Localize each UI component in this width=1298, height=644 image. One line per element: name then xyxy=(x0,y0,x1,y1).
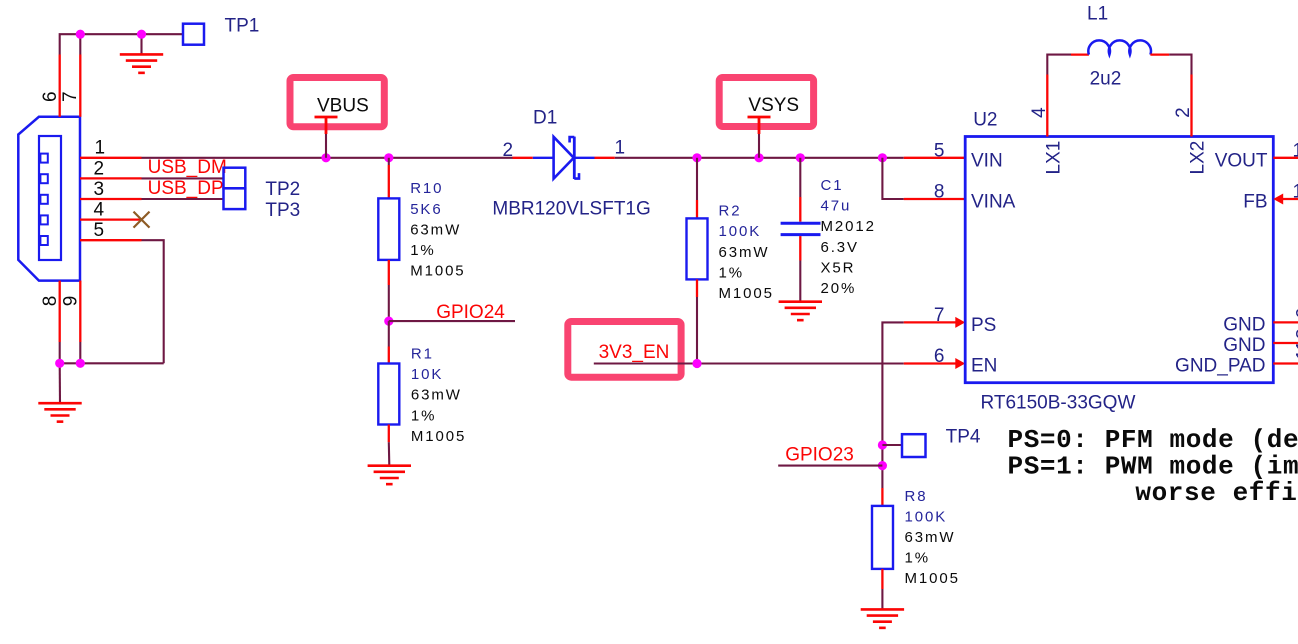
svg-text:2: 2 xyxy=(503,140,514,161)
svg-text:1: 1 xyxy=(95,138,106,159)
svg-text:5: 5 xyxy=(934,140,945,161)
junction R10 branch xyxy=(384,153,393,162)
resistor R8 xyxy=(881,488,883,506)
USB pin 9 stub xyxy=(79,281,81,342)
svg-text:M1005: M1005 xyxy=(410,263,465,280)
USB pin 8 stub xyxy=(59,281,61,342)
USB pin 3 stub xyxy=(80,198,142,200)
no-connect X on pin 4 xyxy=(134,212,150,228)
capacitor C1 xyxy=(799,158,801,197)
svg-text:47u: 47u xyxy=(821,198,852,215)
svg-text:3: 3 xyxy=(1294,328,1298,339)
svg-text:LX2: LX2 xyxy=(1188,141,1209,175)
svg-text:2: 2 xyxy=(1173,107,1194,118)
ground symbol top xyxy=(120,54,163,72)
diode D1 pin 1 stub xyxy=(595,157,615,159)
junction R2 to 3V3_EN xyxy=(692,359,701,368)
resistor R2 xyxy=(696,158,698,200)
svg-text:R1: R1 xyxy=(411,346,434,363)
test point TP1 square xyxy=(183,24,204,45)
svg-text:20%: 20% xyxy=(821,280,857,297)
op IC U2 body RT6150B xyxy=(965,137,1273,383)
svg-text:3: 3 xyxy=(94,179,105,200)
wire 3V3_EN to EN pin xyxy=(594,362,904,364)
svg-text:C1: C1 xyxy=(821,177,844,194)
svg-text:3V3_EN: 3V3_EN xyxy=(599,342,670,363)
GND pin stub b xyxy=(1273,342,1298,344)
test point TP4 square xyxy=(902,434,926,457)
svg-text:TP3: TP3 xyxy=(265,200,300,221)
ground symbol C1 xyxy=(779,302,822,320)
svg-text:5K6: 5K6 xyxy=(410,201,442,218)
svg-text:63mW: 63mW xyxy=(411,387,462,404)
main VBUS wire from USB pin1 to diode xyxy=(142,157,513,159)
power port VBUS box xyxy=(290,78,384,127)
svg-text:8: 8 xyxy=(40,296,61,307)
svg-text:MBR120VLSFT1G: MBR120VLSFT1G xyxy=(492,199,650,220)
VIN pin stub xyxy=(904,157,965,159)
junction pin9 ground xyxy=(76,359,85,368)
svg-text:U2: U2 xyxy=(973,110,997,131)
svg-text:M1005: M1005 xyxy=(719,285,774,302)
inductor L1 right stub xyxy=(1150,53,1169,55)
ground symbol R8 xyxy=(861,609,904,627)
wire top horizontal net from USB shield to TP1 xyxy=(60,34,183,54)
junction GPIO23 xyxy=(878,461,887,470)
junction R2 branch xyxy=(692,153,701,162)
wire split to VINA xyxy=(882,158,903,199)
GND pin stub a xyxy=(1273,321,1298,323)
wire pin2 to TP2 xyxy=(142,177,224,179)
svg-text:VINA: VINA xyxy=(971,192,1016,213)
VOUT pin stub xyxy=(1273,157,1298,159)
svg-text:VSYS: VSYS xyxy=(748,95,799,116)
svg-text:63mW: 63mW xyxy=(719,244,770,261)
svg-text:6.3V: 6.3V xyxy=(821,239,859,256)
svg-text:M1005: M1005 xyxy=(411,428,466,445)
svg-text:100K: 100K xyxy=(905,508,948,525)
svg-text:PS: PS xyxy=(971,315,996,336)
USB pin 2 stub xyxy=(80,177,142,179)
diode D1 schottky xyxy=(533,137,595,179)
wire GPIO24 xyxy=(389,320,515,322)
junction top wire at ground tap xyxy=(137,30,146,39)
svg-text:5: 5 xyxy=(94,220,105,241)
svg-text:FB: FB xyxy=(1243,192,1267,213)
inductor L1 left stub xyxy=(1071,53,1089,55)
svg-text:7: 7 xyxy=(60,91,81,102)
svg-text:R8: R8 xyxy=(905,488,928,505)
svg-text:USB_DM: USB_DM xyxy=(148,157,227,178)
svg-text:1%: 1% xyxy=(410,242,435,259)
VINA pin stub xyxy=(904,198,965,200)
test point TP2 square xyxy=(224,168,246,189)
svg-text:RT6150B-33GQW: RT6150B-33GQW xyxy=(981,393,1136,414)
svg-text:2u2: 2u2 xyxy=(1090,69,1122,90)
svg-text:9: 9 xyxy=(1294,307,1298,318)
USB pin 4 stub xyxy=(80,218,142,220)
svg-text:6: 6 xyxy=(934,346,945,367)
svg-text:EN: EN xyxy=(971,356,997,377)
svg-text:GPIO23: GPIO23 xyxy=(785,444,854,465)
svg-text:6: 6 xyxy=(40,91,61,102)
svg-text:1: 1 xyxy=(615,138,626,159)
net port 3V3_EN box xyxy=(568,322,681,378)
svg-text:M2012: M2012 xyxy=(821,218,876,235)
svg-text:63mW: 63mW xyxy=(410,221,461,238)
svg-text:1: 1 xyxy=(1293,140,1298,161)
GND_PAD pin stub xyxy=(1273,362,1298,364)
ground symbol R1 xyxy=(368,466,411,484)
wire VBUS port to main wire xyxy=(325,134,327,158)
wire LX1 to inductor xyxy=(1047,55,1071,75)
junction VBUS port xyxy=(321,153,330,162)
LX1 pin stub xyxy=(1046,75,1048,137)
svg-text:9: 9 xyxy=(61,296,82,307)
test point TP3 square xyxy=(224,188,246,209)
EN pin stub with arrow xyxy=(904,362,958,364)
USB pin 5 stub xyxy=(80,239,142,241)
svg-text:PS=1: PWM mode (improved rippl: PS=1: PWM mode (improved ripple but xyxy=(1008,452,1298,482)
wire to TP4 xyxy=(882,444,902,446)
VSYS power bar symbol xyxy=(748,117,771,134)
svg-text:R10: R10 xyxy=(410,180,443,197)
USB pin 7 stub xyxy=(79,55,81,117)
svg-text:63mW: 63mW xyxy=(905,529,956,546)
svg-text:2: 2 xyxy=(94,158,105,179)
wire VSYS port to main wire xyxy=(758,134,760,158)
ground symbol USB shield xyxy=(38,403,81,421)
svg-text:LX1: LX1 xyxy=(1044,141,1065,175)
svg-text:X5R: X5R xyxy=(821,259,856,276)
svg-text:4: 4 xyxy=(1029,107,1050,118)
diode D1 pin 2 stub xyxy=(513,157,533,159)
svg-text:TP2: TP2 xyxy=(265,179,300,200)
junction top wire at pin7 xyxy=(76,30,85,39)
junction C1 branch xyxy=(796,153,805,162)
svg-text:GPIO24: GPIO24 xyxy=(436,302,505,323)
wire PS net vertical xyxy=(882,322,903,488)
svg-text:GND: GND xyxy=(1223,315,1265,336)
inductor L1 coil xyxy=(1088,40,1151,54)
USB pin 6 stub xyxy=(59,55,61,117)
PS pin stub with arrow xyxy=(904,321,958,323)
svg-text:4: 4 xyxy=(94,200,105,221)
junction TP4 xyxy=(878,440,887,449)
svg-text:1: 1 xyxy=(1293,182,1298,203)
svg-text:D1: D1 xyxy=(533,108,557,129)
svg-text:VOUT: VOUT xyxy=(1215,151,1268,172)
junction GPIO24 xyxy=(384,317,393,326)
svg-text:10K: 10K xyxy=(411,366,443,383)
svg-text:worse efficiency at light load: worse efficiency at light loads) xyxy=(1135,478,1298,508)
resistor R10 xyxy=(388,158,390,165)
svg-text:TP1: TP1 xyxy=(225,15,260,36)
svg-text:L1: L1 xyxy=(1087,4,1108,25)
wire pins 8,9 to ground and pin5 down wire xyxy=(60,240,164,403)
USB connector J1 body xyxy=(18,117,80,281)
wire pin3 to TP3 xyxy=(142,198,224,200)
svg-text:1%: 1% xyxy=(905,550,930,567)
LX2 pin stub xyxy=(1190,75,1192,137)
main VSYS wire diode to IC branch xyxy=(615,157,904,159)
svg-text:M1005: M1005 xyxy=(905,570,960,587)
svg-text:1%: 1% xyxy=(719,264,744,281)
junction pin8 ground xyxy=(55,359,64,368)
svg-text:GND_PAD: GND_PAD xyxy=(1175,356,1265,377)
FB pin stub with arrow xyxy=(1281,198,1298,200)
USB pin 1 stub xyxy=(80,157,142,159)
junction VIN/VINA split xyxy=(878,153,887,162)
svg-text:11: 11 xyxy=(1294,340,1298,360)
resistor R1 xyxy=(388,321,390,346)
svg-text:8: 8 xyxy=(934,182,945,203)
svg-text:1%: 1% xyxy=(411,407,436,424)
junction VSYS port xyxy=(754,153,763,162)
svg-text:R2: R2 xyxy=(719,203,742,220)
wire GPIO23 xyxy=(778,465,882,467)
svg-text:GND: GND xyxy=(1223,335,1265,356)
svg-text:USB_DP: USB_DP xyxy=(148,178,224,199)
svg-text:100K: 100K xyxy=(719,223,762,240)
wire inductor to LX2 xyxy=(1169,55,1191,75)
svg-text:VBUS: VBUS xyxy=(317,95,369,116)
power port VSYS box xyxy=(719,78,813,127)
svg-text:VIN: VIN xyxy=(971,151,1003,172)
VBUS power bar symbol xyxy=(315,117,338,134)
svg-text:7: 7 xyxy=(934,305,945,326)
svg-text:TP4: TP4 xyxy=(946,427,981,448)
